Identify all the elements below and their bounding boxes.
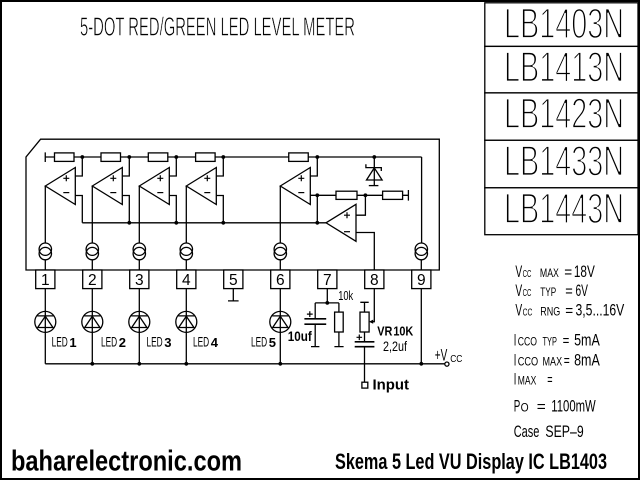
wire A4 output to current source <box>185 186 187 243</box>
svg-text:I: I <box>514 370 517 389</box>
svg-text:CCO: CCO <box>518 355 538 369</box>
wire A1 + input from divider tap <box>75 157 82 176</box>
svg-text:18V: 18V <box>574 262 595 281</box>
svg-text:I: I <box>514 331 517 350</box>
wire pin 7 node <box>315 289 339 303</box>
wire A3 output to current source <box>138 186 140 243</box>
pin 7 <box>318 270 337 289</box>
junction node R6/R7 <box>364 193 368 197</box>
op-amp A6 buffer <box>326 204 356 241</box>
wire A5 output to current source <box>279 186 281 243</box>
svg-text:4: 4 <box>211 335 219 350</box>
junction node rail x=139.3 <box>137 362 141 366</box>
svg-text:10uf: 10uf <box>288 328 312 344</box>
junction node chain-2 <box>127 155 131 159</box>
svg-text:6V: 6V <box>576 281 589 300</box>
wire C2 to input terminal <box>364 347 366 382</box>
svg-text:1100mW: 1100mW <box>551 397 595 416</box>
junction node rail x=280.3 <box>278 362 282 366</box>
current source I4 <box>180 243 192 255</box>
svg-text:Skema 5 Led VU Display IC LB14: Skema 5 Led VU Display IC LB1403 <box>335 449 607 474</box>
junction node chain-1 <box>80 155 84 159</box>
svg-text:+V: +V <box>435 346 448 365</box>
svg-text:1: 1 <box>69 335 76 350</box>
svg-text:=: = <box>564 353 570 370</box>
pin 2 <box>83 270 102 289</box>
svg-text:LB1413N: LB1413N <box>504 45 624 92</box>
current source I1 <box>39 243 51 255</box>
svg-text:=: = <box>565 302 573 319</box>
resistor R5 (divider chain) <box>289 153 309 162</box>
wire A5 minus / R6 R7 network <box>317 194 408 196</box>
part number box LB1403N <box>485 3 638 47</box>
op-amp A3 comparator <box>139 168 169 205</box>
svg-text:8: 8 <box>370 272 379 289</box>
potentiometer VR 10K wiper arrow <box>369 320 373 324</box>
LED5 <box>279 289 281 364</box>
svg-text:2: 2 <box>119 335 126 350</box>
current source I5 <box>274 243 286 255</box>
op-amp A2 comparator <box>92 168 122 205</box>
part number box LB1433N <box>485 140 638 188</box>
junction node chain-5 <box>315 155 319 159</box>
resistor R7 <box>383 191 403 199</box>
svg-text:8mA: 8mA <box>574 351 600 370</box>
svg-text:=: = <box>563 333 570 350</box>
wire A5 - input node <box>310 195 317 223</box>
junction node bus at x=317.3 <box>315 221 319 225</box>
wire A1 output to current source <box>44 186 46 243</box>
junction node rail x=92.3 <box>90 362 94 366</box>
svg-text:LED: LED <box>193 335 209 350</box>
svg-text:3,5...16V: 3,5...16V <box>576 300 625 319</box>
junction node bus at x=223.3 <box>221 221 225 225</box>
wire A2 - input to reference bus <box>122 196 129 223</box>
wire A3 - input to reference bus <box>169 196 176 223</box>
resistor R8 10k <box>338 303 340 312</box>
svg-text:P: P <box>514 397 521 416</box>
svg-text:3: 3 <box>164 335 171 350</box>
svg-text:1: 1 <box>41 272 50 289</box>
junction node chain-4 <box>221 155 225 159</box>
svg-text:2: 2 <box>88 272 97 289</box>
svg-text:MAX: MAX <box>540 266 559 280</box>
svg-text:baharelectronic.com: baharelectronic.com <box>11 446 242 478</box>
wire A6 - input to pin 8 <box>356 233 374 271</box>
wire A6 + input from R6/R7 node <box>356 195 365 215</box>
svg-text:4: 4 <box>182 272 191 289</box>
svg-text:=: = <box>547 372 552 389</box>
resistor R3 (divider chain) <box>148 153 168 162</box>
pin 6 <box>271 270 290 289</box>
svg-text:Case: Case <box>514 422 540 441</box>
LED4 <box>185 289 187 364</box>
pin 1 <box>36 270 55 289</box>
pin 3 <box>130 270 149 289</box>
svg-text:MAX: MAX <box>543 355 563 369</box>
svg-text:I: I <box>514 351 517 370</box>
svg-text:O: O <box>521 401 529 415</box>
LED1 <box>44 289 46 364</box>
potentiometer VR 10K body <box>360 312 369 332</box>
current source I6 <box>415 243 427 255</box>
resistor R2 (divider chain) <box>101 153 121 162</box>
wire +Vcc rail <box>45 363 445 365</box>
current source I3 <box>133 243 145 255</box>
wire reference bus (comparator - inputs) <box>82 222 326 224</box>
svg-text:Input: Input <box>373 377 410 393</box>
resistor R6 <box>336 191 357 199</box>
svg-text:5mA: 5mA <box>574 331 600 350</box>
svg-text:LED: LED <box>251 335 267 350</box>
wire resistor-divider chain (pin9 rail to left reference) <box>45 152 421 243</box>
resistor R1 (divider chain) <box>55 153 75 162</box>
svg-text:5: 5 <box>269 335 276 350</box>
svg-text:CC: CC <box>523 288 532 299</box>
terminal stub right of R7 <box>407 190 409 201</box>
svg-text:10k: 10k <box>338 289 354 303</box>
svg-text:5: 5 <box>229 272 238 289</box>
junction node rail x=186.3 <box>184 362 188 366</box>
svg-text:LB1423N: LB1423N <box>504 91 624 138</box>
wire A4 - input to reference bus <box>216 196 223 223</box>
junction node bus at x=176.3 <box>174 221 178 225</box>
svg-text:TYP: TYP <box>543 335 557 349</box>
ground stub pin 5 <box>228 289 239 301</box>
zener diode D1 <box>373 157 375 186</box>
junction node rail x=421.3 <box>419 362 423 366</box>
part number box LB1413N <box>485 46 638 93</box>
junction node bus at x=129.3 <box>127 221 131 225</box>
resistor R4 (divider chain) <box>196 153 216 162</box>
capacitor C1 10uf <box>314 303 316 318</box>
LED2 <box>91 289 93 364</box>
LED3 <box>138 289 140 364</box>
wire pin 8 to wiper <box>372 289 374 322</box>
wire A3 + input from divider tap <box>169 157 176 176</box>
svg-text:RNG: RNG <box>540 304 560 318</box>
svg-text:6: 6 <box>276 272 285 289</box>
op-amp A4 comparator <box>186 168 216 205</box>
pin 9 <box>412 270 431 289</box>
svg-text:LB1403N: LB1403N <box>504 1 624 48</box>
wire A4 + input from divider tap <box>216 157 223 176</box>
op-amp A1 comparator <box>45 168 75 205</box>
svg-text:V: V <box>515 262 522 281</box>
svg-text:TYP: TYP <box>540 285 556 299</box>
svg-text:LB1433N: LB1433N <box>504 139 624 186</box>
svg-text:=: = <box>564 264 572 281</box>
node Input terminal <box>362 382 368 388</box>
svg-text:=: = <box>565 283 573 300</box>
svg-text:LED: LED <box>101 335 117 350</box>
junction node pin7 <box>325 301 329 305</box>
svg-text:CC: CC <box>523 269 532 280</box>
op-amp A5 comparator <box>280 168 310 205</box>
capacitor C2 2,2uf <box>364 332 366 341</box>
svg-text:9: 9 <box>417 272 426 289</box>
junction node chain-6 <box>372 155 376 159</box>
part number box LB1443N <box>485 188 638 235</box>
node +Vcc terminal <box>445 362 449 366</box>
svg-text:LB1443N: LB1443N <box>504 186 624 233</box>
svg-text:V: V <box>515 300 522 319</box>
wire A1 - input to reference bus <box>75 196 82 223</box>
wire A2 output to current source <box>91 186 93 243</box>
pin 8 <box>365 270 384 289</box>
svg-text:7: 7 <box>323 272 332 289</box>
svg-text:MAX: MAX <box>518 374 537 388</box>
svg-text:=: = <box>537 399 546 416</box>
pin 4 <box>177 270 196 289</box>
wire A2 + input from divider tap <box>122 157 129 176</box>
wire pin 9 to rail <box>420 289 422 364</box>
svg-text:SEP–9: SEP–9 <box>545 422 583 441</box>
pin 5 <box>224 270 243 289</box>
svg-text:2,2uf: 2,2uf <box>383 338 407 354</box>
svg-text:CCO: CCO <box>518 335 537 349</box>
part number box LB1423N <box>485 93 638 140</box>
svg-text:LED: LED <box>147 335 163 350</box>
svg-text:3: 3 <box>135 272 144 289</box>
svg-text:5-DOT RED/GREEN LED LEVEL METE: 5-DOT RED/GREEN LED LEVEL METER <box>80 12 355 42</box>
junction node chain-3 <box>174 155 178 159</box>
svg-text:LED: LED <box>52 335 68 350</box>
svg-text:V: V <box>515 281 522 300</box>
IC body outline U1 <box>26 139 439 270</box>
svg-text:CC: CC <box>450 353 463 365</box>
svg-text:CC: CC <box>523 307 533 318</box>
wire A5 + input from divider tap <box>310 157 317 176</box>
svg-text:VR 10K: VR 10K <box>377 324 414 339</box>
current source I2 <box>86 243 98 255</box>
